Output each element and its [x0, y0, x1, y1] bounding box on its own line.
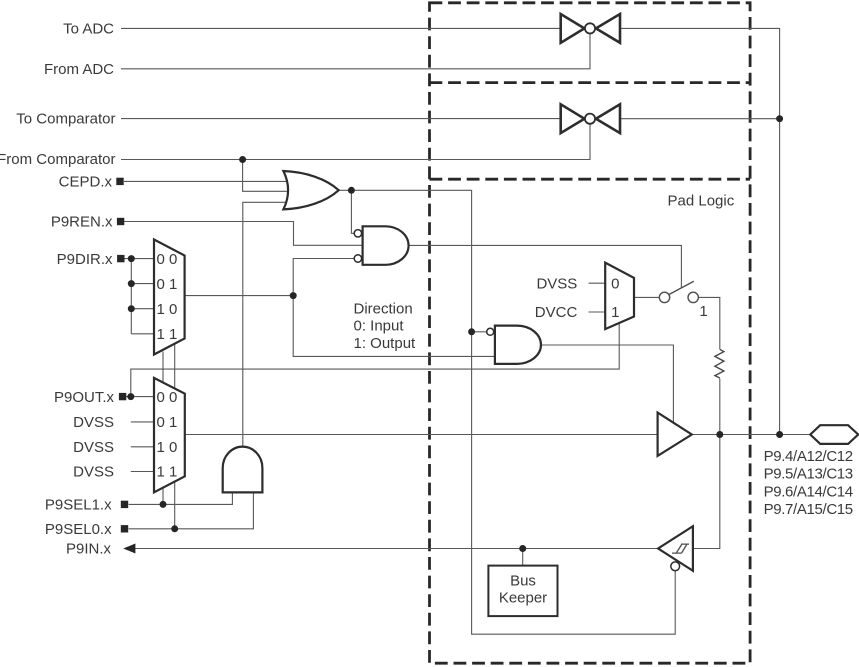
terminal square P9REN.x [117, 218, 124, 225]
wire DVSS stub row3 mux2 [131, 446, 154, 448]
wire P9SEL1.x line [129, 492, 233, 504]
svg-text:P9REN.x: P9REN.x [51, 214, 113, 231]
svg-text:To ADC: To ADC [63, 20, 114, 37]
wire P9DIR.x stub row1 mux1 [124, 258, 154, 260]
wire From Comparator branch to OR input [243, 160, 289, 192]
svg-text:P9DIR.x: P9DIR.x [57, 251, 113, 268]
wire pad to schmitt input [693, 435, 720, 549]
svg-text:P9IN.x: P9IN.x [66, 541, 112, 558]
wire bus keeper stub [522, 549, 524, 566]
svg-text:To Comparator: To Comparator [16, 111, 115, 128]
transmission gate U2 Comparator [561, 104, 620, 133]
svg-text:Keeper: Keeper [499, 589, 547, 606]
wire CEPD.x to OR [124, 180, 290, 182]
svg-text:0 1: 0 1 [156, 276, 177, 293]
arrow P9IN.x [123, 544, 135, 554]
junction P9SEL1 [160, 501, 167, 508]
switch S1 [659, 281, 698, 302]
wire direction net to NAND bottom input and direction AND [293, 259, 495, 357]
wire DVSS stub mux3 [589, 282, 606, 284]
wire From Comparator [121, 123, 590, 159]
svg-text:1 0: 1 0 [156, 301, 177, 318]
wire P9OUT.x to mux3 select [131, 323, 619, 397]
wire pad line [692, 434, 811, 436]
resistor R1 [715, 349, 724, 378]
wire DVCC stub mux3 [589, 311, 606, 313]
wire select1 below mux2 [162, 488, 164, 505]
mux M2 P9OUT [154, 378, 185, 492]
wire mux1 stub row4 [131, 333, 154, 335]
svg-text:DVSS: DVSS [536, 275, 577, 292]
terminal square P9OUT.x [119, 393, 126, 400]
transmission gate U1 ADC [561, 14, 620, 43]
wire P9REN.x to NAND middle input [124, 222, 362, 246]
wire select0 between muxes [174, 344, 176, 389]
direction AND U5 [487, 326, 541, 364]
terminal square P9DIR.x [117, 255, 124, 262]
junction P9DIR row3 [128, 305, 135, 312]
svg-text:0 0: 0 0 [156, 251, 177, 268]
svg-text:P9OUT.x: P9OUT.x [54, 389, 115, 406]
bus keeper block [488, 566, 557, 617]
svg-text:Pad Logic: Pad Logic [668, 192, 735, 209]
wire DVSS stub row4 mux2 [131, 471, 154, 473]
wire TG2 output [620, 118, 780, 120]
junction resistor at pad line [716, 431, 723, 438]
svg-text:DVSS: DVSS [73, 464, 114, 481]
junction P9DIR row1 [128, 255, 135, 262]
junction From Comparator [239, 156, 246, 163]
terminal square CEPD.x [116, 178, 123, 185]
svg-text:DVSS: DVSS [73, 414, 114, 431]
svg-text:DVCC: DVCC [535, 304, 578, 321]
wire DVSS stub row2 mux2 [131, 421, 154, 423]
svg-text:0 1: 0 1 [156, 414, 177, 431]
wire TG1 output to pad net [620, 28, 780, 434]
junction P9DIR row2 [128, 280, 135, 287]
schmitt input buffer U8 [658, 526, 693, 571]
mux M3 pull select [605, 263, 634, 330]
wire select AND output to OR input [243, 202, 288, 446]
wire mux1 output [185, 295, 294, 297]
pad pin symbol [810, 425, 858, 444]
svg-text:1: 1 [611, 304, 619, 321]
svg-text:1 0: 1 0 [156, 439, 177, 456]
wire mux1 stub row3 [131, 308, 154, 310]
svg-text:CEPD.x: CEPD.x [59, 173, 113, 190]
mux M1 P9DIR [154, 240, 185, 355]
terminal square P9SEL0.x [121, 525, 128, 532]
output buffer U7 [658, 413, 692, 456]
svg-text:0 0: 0 0 [156, 389, 177, 406]
svg-text:1: Output: 1: Output [354, 335, 417, 352]
wire switch to resistor [699, 297, 720, 349]
svg-text:0: 0 [611, 275, 619, 292]
wire OR output [339, 190, 676, 634]
wire select1 between muxes [162, 352, 164, 383]
svg-text:P9.5/A13/C13: P9.5/A13/C13 [764, 466, 853, 483]
dashed separator Comparator/Pad Logic [430, 178, 751, 181]
junction bus keeper [519, 545, 526, 552]
junction pad net vertical [776, 431, 783, 438]
wire enable to direction AND bubble [472, 331, 487, 333]
wire P9OUT.x stub [124, 396, 154, 398]
wire To Comparator [121, 118, 561, 120]
junction TG2 output on pad net [776, 115, 783, 122]
dashed separator ADC/Comparator [430, 81, 751, 84]
terminal square P9SEL1.x [121, 501, 128, 508]
svg-text:P9SEL0.x: P9SEL0.x [45, 521, 112, 538]
wire buffer input from mux2 [185, 434, 658, 436]
wire From ADC [121, 33, 590, 69]
svg-text:P9.4/A12/C12: P9.4/A12/C12 [764, 448, 853, 465]
wire mux3 output to switch [634, 296, 659, 298]
junction P9OUT [127, 393, 134, 400]
svg-text:DVSS: DVSS [73, 439, 114, 456]
svg-text:Bus: Bus [510, 573, 536, 590]
select AND U6 [223, 447, 263, 493]
svg-text:P9.6/A14/C14: P9.6/A14/C14 [764, 483, 853, 500]
wire P9IN.x line [135, 548, 659, 550]
svg-text:P9SEL1.x: P9SEL1.x [45, 497, 112, 514]
nand U4 with inverted inputs [354, 226, 408, 264]
junction enable at direction AND [468, 328, 475, 335]
junction direction net [290, 292, 297, 299]
wire P9SEL0.x line [129, 492, 254, 528]
svg-text:From ADC: From ADC [44, 61, 114, 78]
svg-text:1: 1 [699, 303, 707, 320]
wire P9DIR.x vertical bus [130, 259, 132, 334]
wire mux1 stub row2 [131, 283, 154, 285]
wire select0 below mux2 [174, 481, 176, 529]
junction OR output [348, 187, 355, 194]
svg-text:Direction: Direction [354, 301, 413, 318]
wire NAND output to switch control [409, 245, 682, 287]
svg-text:0: Input: 0: Input [354, 318, 405, 335]
svg-text:From Comparator: From Comparator [0, 151, 116, 168]
or-gate U3 [283, 171, 338, 209]
svg-text:P9.7/A15/C15: P9.7/A15/C15 [764, 501, 853, 518]
wire To ADC [121, 27, 561, 29]
wire resistor to pad line [719, 379, 721, 435]
wire direction AND output to buffer enable [541, 345, 674, 423]
svg-text:1 1: 1 1 [156, 326, 177, 343]
svg-text:1 1: 1 1 [156, 464, 177, 481]
dashed boundary outer box [430, 3, 751, 663]
wire OR output to NAND top input [351, 190, 354, 233]
junction P9SEL0 [171, 525, 178, 532]
